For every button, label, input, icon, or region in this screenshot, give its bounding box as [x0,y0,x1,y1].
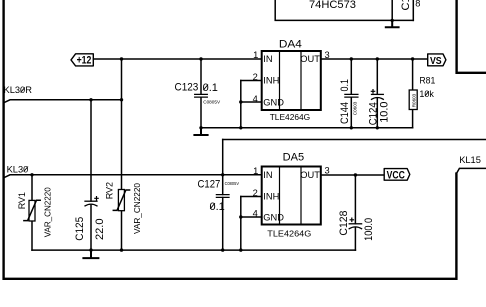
svg-text:RV1: RV1 [17,192,27,209]
svg-text:4: 4 [253,94,258,104]
IC DA4 box [262,51,321,110]
svg-text:22.0: 22.0 [94,219,106,241]
svg-text:C127: C127 [198,178,221,190]
svg-text:C144: C144 [339,102,351,124]
svg-text:10.0: 10.0 [379,102,391,123]
port KL30 wire to DA5 pin IN [4,175,262,178]
ground at bottom rail below C125 [83,250,98,258]
hierarchical block border top right [457,0,486,73]
svg-text:VAR_CN2220: VAR_CN2220 [133,182,142,234]
svg-text:1: 1 [253,50,258,60]
junction +12/C123 [199,57,202,60]
junction KL30/C127 [221,173,224,176]
svg-text:DA5: DA5 [283,151,305,163]
svg-text:GND: GND [263,213,284,223]
svg-text:RV2: RV2 [105,182,115,199]
svg-text:C125: C125 [74,217,86,241]
ground rail VS side [201,127,413,129]
svg-text:2: 2 [253,72,258,82]
wire net +12 to DA4 pin IN [94,58,262,60]
svg-text:1: 1 [253,166,258,176]
svg-text:VAR_CN2220: VAR_CN2220 [43,187,52,238]
capacitor C125 polarized [85,200,97,202]
svg-text:8: 8 [415,0,420,9]
wire KL30 branch to right edge [223,139,486,141]
net flag VS [428,54,446,66]
svg-text:OUT: OUT [300,170,320,180]
svg-text:GND: GND [263,97,284,107]
svg-text:C0805V: C0805V [225,181,240,187]
wire net VS from DA4 OUT [321,58,428,60]
varistor RV2 [118,190,124,211]
ground at 74HC573 [386,20,399,27]
svg-text:+12: +12 [77,55,92,67]
svg-text:KL15: KL15 [459,155,481,165]
svg-text:KL30R: KL30R [4,85,33,95]
junction +12/riser [120,57,123,60]
svg-text:TLE4264G: TLE4264G [267,228,311,238]
wire DA4 GND pin 4 [241,101,262,103]
svg-text:100.0: 100.0 [363,218,375,241]
svg-text:3: 3 [325,50,330,60]
svg-text:3: 3 [325,166,330,176]
port KL15 wire [456,168,486,173]
svg-text:VS: VS [430,56,442,67]
junction 74HC573 ground [391,19,394,22]
IC 74HC573 (partial box) [275,0,413,20]
net flag +12 [71,54,93,66]
svg-text:IN: IN [263,170,272,180]
resistor R81 [412,59,414,128]
wire DA5 INH pin 2 [241,196,262,198]
svg-text:C128: C128 [338,211,350,236]
svg-text:DA4: DA4 [279,39,302,51]
svg-text:C0603: C0603 [352,101,357,115]
wire RV1 branch [31,175,33,250]
svg-text:VCC: VCC [387,169,405,181]
port KL30R wire [4,100,121,103]
wire KL30R to C125 to rail [90,100,92,250]
junction KL30R/riser [120,98,123,101]
wire DA5 INH-GND tie to rail [240,197,242,251]
capacitor C144 [350,59,352,128]
net flag VCC [384,169,410,181]
wire riser +12 / KL30R / RV2 [121,59,123,250]
svg-text:R81: R81 [419,76,435,86]
capacitor C128 polarized [354,175,356,250]
svg-text:INH: INH [263,191,279,201]
wire DA5 GND pin 4 [241,216,262,218]
wire DA4 INH pin 2 [241,80,262,82]
svg-text:74HC573: 74HC573 [309,0,356,11]
ground rail bottom [32,249,355,251]
capacitor C123 [200,59,202,128]
capacitor C124 polarized [376,59,378,128]
varistor RV1 [29,200,35,221]
svg-text:TLE4264G: TLE4264G [270,112,311,122]
svg-text:4: 4 [253,208,258,218]
svg-text:R0603: R0603 [411,93,416,107]
IC DA5 box [262,167,321,225]
junction KL30R/C125 [89,98,92,101]
wire net VCC from DA5 OUT [321,174,385,176]
svg-text:C123: C123 [175,81,199,93]
junction KL30/RV1 [30,173,33,176]
svg-text:C0805V: C0805V [203,99,221,105]
svg-text:INH: INH [263,76,279,86]
svg-text:IN: IN [263,54,272,64]
capacitor C127 [222,140,224,251]
wire pin 8 stub [412,0,414,20]
svg-text:0.1: 0.1 [339,79,351,92]
svg-text:C11: C11 [400,0,412,11]
svg-text:OUT: OUT [300,54,320,64]
wire DA4 INH-GND tie to ground [240,81,242,128]
svg-text:2: 2 [253,188,258,198]
ground at C123 [194,128,207,135]
